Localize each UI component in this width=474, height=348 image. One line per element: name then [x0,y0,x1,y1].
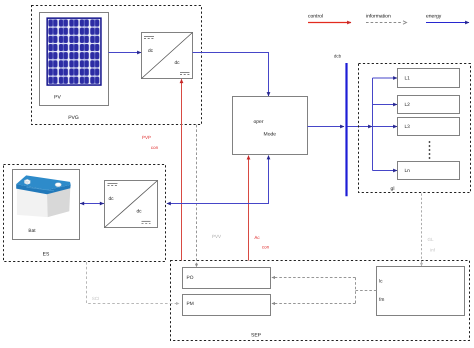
PM box [183,295,271,316]
ellipsis dots between L3 and Ln [429,141,431,159]
svg-text:dc: dc [108,196,114,202]
svg-text:L2: L2 [405,102,411,108]
lc / fm box [377,267,465,316]
dc/dc converter U1 (PVG) box [142,33,193,79]
energy wire operMode to ES (blue, two arrowheads) [167,156,269,204]
svg-text:inf: inf [430,247,436,252]
svg-text:lc: lc [379,279,383,285]
energy wire operMode to dcb bus [308,126,345,128]
svg-text:con: con [151,145,159,150]
converter U1 DC symbol bottom-right [180,73,190,75]
information wire lc to PM (gray dashed) [272,303,356,305]
information wire ES to PM (SCI, light gray) [87,262,180,304]
converter U2 diagonal [105,181,158,228]
svg-text:SEP: SEP [251,333,262,339]
svg-text:fm: fm [379,297,384,303]
information wire gl to lc (gray dotted) [421,194,423,267]
oper Mode box [233,97,308,155]
loads spine wire [372,78,374,171]
legend energy arrow [426,22,469,24]
svg-text:dcb: dcb [334,53,342,58]
svg-text:gl: gl [391,186,395,192]
energy wire Bat to converter U2 (double arrow) [80,203,104,205]
svg-text:oper: oper [253,119,263,125]
svg-text:Ln: Ln [405,168,411,174]
svg-text:PM: PM [187,301,194,307]
svg-text:L1: L1 [405,76,411,82]
Bat box [13,170,80,240]
converter U2 DC symbol top-left [108,184,118,186]
svg-text:PO: PO [187,275,194,281]
battery terminal right [55,183,61,187]
branch wire to Ln [373,170,398,172]
battery body right face [47,188,70,218]
load L1 box [398,69,460,88]
wire converter U1 to operMode (energy) [193,53,269,97]
PO box [183,268,271,289]
svg-text:PV: PV [54,94,61,100]
PVG dashed box [32,6,202,125]
svg-text:PVP: PVP [142,135,151,140]
converter U1 DC symbol top-left [144,37,154,39]
battery image [16,175,70,217]
svg-text:Mode: Mode [264,132,277,138]
svg-text:SCI: SCI [92,296,100,301]
converter U2 DC symbol bottom-right [142,221,151,223]
svg-text:information: information [366,14,391,20]
PV solar panel image [46,17,101,85]
load L3 box [398,118,460,136]
battery lid seam [27,187,55,191]
branch wire to L1 [373,77,398,79]
battery body front face [17,188,48,218]
information wire lc to PO (gray dashed) [272,277,356,279]
ES dashed box [4,165,166,262]
svg-text:Ac: Ac [254,235,260,240]
svg-text:con: con [262,244,270,249]
svg-text:L3: L3 [405,124,411,130]
svg-text:PVV: PVV [212,234,221,239]
branch wire to L3 [373,126,398,128]
svg-text:Bat: Bat [28,228,36,234]
svg-text:dc: dc [136,208,142,214]
legend information arrow [366,21,407,24]
battery lid skirt [16,184,70,194]
branch wire to L2 [373,104,398,106]
information wire PVG to PO (gray dashed) [196,125,198,267]
svg-text:PVG: PVG [68,115,79,121]
dc/dc converter U2 (battery) box [105,181,158,228]
load L2 box [398,96,460,114]
svg-text:energy: energy [426,14,442,20]
junction to lc box wire [356,290,377,292]
junction vertical wire [355,278,357,304]
SEP dashed box [171,261,470,341]
svg-text:dc: dc [148,48,154,54]
battery terminal left [24,179,30,182]
battery lid top face [16,175,70,190]
PV module box [40,13,109,106]
control wire SEP to converter U1 (red) [181,79,183,260]
energy wire dcb bus to loads spine [348,126,373,128]
legend control arrow [308,22,351,24]
svg-text:control: control [308,14,323,20]
svg-text:dc: dc [174,60,180,66]
control wire SEP to operMode (red) [248,156,250,261]
load Ln box [398,162,460,180]
gl dashed box [359,64,471,193]
svg-text:GL: GL [427,237,434,242]
wire PV to converter U1 (energy) [109,52,141,54]
dcb bus bar [345,63,347,196]
svg-text:ES: ES [43,251,50,257]
arrowhead into operMode bottom [267,155,271,159]
converter U1 diagonal [142,33,193,79]
